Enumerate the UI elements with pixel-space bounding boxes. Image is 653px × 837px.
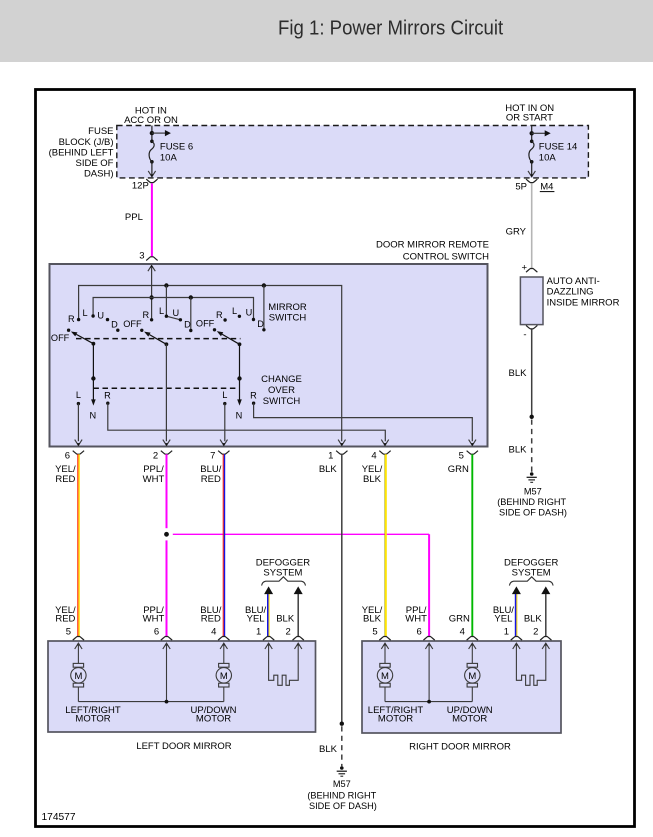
svg-text:ACC OR ON: ACC OR ON xyxy=(124,115,178,126)
svg-text:FUSE 14: FUSE 14 xyxy=(539,141,578,152)
node changeover B pivot xyxy=(237,376,241,380)
svg-text:FUSE: FUSE xyxy=(88,126,113,137)
left/right motor (right mirror) xyxy=(384,643,386,664)
wire arm3 to changeover xyxy=(239,344,241,378)
heater element left mirror xyxy=(269,643,299,685)
mirror switch section mid: contacts xyxy=(150,318,153,321)
svg-text:M: M xyxy=(468,671,476,682)
wire hot feed right xyxy=(531,126,533,137)
svg-text:M57: M57 xyxy=(524,486,542,496)
svg-text:WHT: WHT xyxy=(143,614,165,625)
svg-text:BLK: BLK xyxy=(509,368,528,379)
connector 5P M4 xyxy=(526,179,537,183)
right door mirror box xyxy=(362,641,561,733)
node fuse6 top xyxy=(150,131,154,135)
svg-text:SIDE OF: SIDE OF xyxy=(75,158,113,169)
wire BLK left defogger xyxy=(297,594,299,636)
wire BLK dashed to ground bottom xyxy=(341,726,343,766)
wire L2 drop xyxy=(165,286,167,317)
connector pin 4 right mirror xyxy=(467,637,478,641)
svg-text:1: 1 xyxy=(504,627,509,638)
svg-text:M57: M57 xyxy=(333,779,351,789)
title bar xyxy=(0,0,653,62)
svg-text:(BEHIND RIGHT: (BEHIND RIGHT xyxy=(307,790,376,800)
svg-text:MOTOR: MOTOR xyxy=(75,714,110,725)
svg-text:BLK: BLK xyxy=(363,614,382,625)
svg-text:BLK: BLK xyxy=(276,614,295,625)
svg-text:SIDE OF DASH): SIDE OF DASH) xyxy=(499,508,567,518)
svg-text:M: M xyxy=(381,671,389,682)
wire YEL/BLK xyxy=(384,454,386,636)
changeover contacts B xyxy=(223,402,226,405)
arrow feed continues right (fuse14) xyxy=(532,132,546,134)
up/down motor (left mirror) xyxy=(223,643,225,664)
wire D3 drop xyxy=(263,286,265,330)
node bus-pin6 left xyxy=(165,700,169,704)
node bus1-D3 xyxy=(262,283,266,287)
mirror switch section mid: wiper arm xyxy=(165,342,169,346)
svg-text:YEL: YEL xyxy=(494,614,512,625)
svg-text:6: 6 xyxy=(65,450,70,461)
svg-text:OR START: OR START xyxy=(506,113,553,124)
node PPL/WHT splice xyxy=(164,532,169,537)
connector pin 6 of switch xyxy=(75,440,82,446)
svg-text:INSIDE MIRROR: INSIDE MIRROR xyxy=(547,298,620,309)
svg-text:D: D xyxy=(184,320,191,330)
node feed-bus2 junction xyxy=(149,295,153,299)
wire GRN xyxy=(471,454,473,636)
svg-text:(BEHIND RIGHT: (BEHIND RIGHT xyxy=(497,497,566,507)
svg-text:174577: 174577 xyxy=(42,812,76,823)
svg-text:(BEHIND LEFT: (BEHIND LEFT xyxy=(49,147,114,158)
svg-text:L: L xyxy=(159,306,164,316)
node bus1-L2 xyxy=(164,283,168,287)
node bus2-D2 xyxy=(189,295,193,299)
svg-text:R: R xyxy=(142,310,149,320)
svg-text:U: U xyxy=(97,311,104,321)
fuse F14 xyxy=(531,136,533,141)
door mirror remote control switch box xyxy=(50,264,488,447)
connector pin 1 left mirror xyxy=(263,637,274,641)
svg-text:BLK: BLK xyxy=(319,464,338,475)
wire BLK right defogger xyxy=(545,594,547,636)
wire bus2 xyxy=(93,298,253,320)
wire arm1 to changeover xyxy=(92,344,94,379)
svg-text:SWITCH: SWITCH xyxy=(269,312,307,323)
fuse F6 xyxy=(151,136,153,141)
svg-text:U: U xyxy=(172,308,179,318)
connector pin 6 right mirror xyxy=(423,637,434,641)
svg-text:L: L xyxy=(232,306,237,316)
svg-text:5P: 5P xyxy=(515,182,527,193)
svg-text:L: L xyxy=(222,390,227,400)
wire fuse6 out xyxy=(151,167,153,177)
heater element right mirror xyxy=(516,643,545,685)
svg-text:BLK: BLK xyxy=(509,444,528,455)
ground M57 bottom xyxy=(340,766,344,770)
connector pin 4 left mirror xyxy=(218,637,229,641)
svg-text:GRN: GRN xyxy=(449,614,470,625)
svg-text:M: M xyxy=(220,671,228,682)
svg-text:R: R xyxy=(68,314,75,324)
connector 12P xyxy=(146,179,157,183)
svg-text:1: 1 xyxy=(256,627,261,638)
wire BLK dashed to ground xyxy=(531,420,533,473)
svg-text:5: 5 xyxy=(459,450,464,461)
fuse block (J/B) dashed box xyxy=(117,126,589,178)
svg-text:DAZZLING: DAZZLING xyxy=(547,286,594,297)
mirror switch mechanical link (dashed) xyxy=(76,338,241,340)
svg-text:U: U xyxy=(246,308,253,318)
connector pin 6 left mirror xyxy=(161,637,172,641)
wire PPL/WHT left xyxy=(166,454,168,528)
wire pin6 to bus left xyxy=(166,643,168,702)
svg-text:L: L xyxy=(82,308,87,318)
wire R-A to pin 4 xyxy=(108,403,386,441)
svg-text:OFF: OFF xyxy=(51,333,70,343)
svg-text:3: 3 xyxy=(139,251,144,262)
svg-text:GRY: GRY xyxy=(506,227,527,238)
connector pin 1 right mirror xyxy=(511,637,522,641)
svg-text:D: D xyxy=(111,320,118,330)
wire BLK mirror ground xyxy=(531,329,533,417)
svg-text:BLK: BLK xyxy=(524,614,543,625)
svg-text:BLK: BLK xyxy=(319,744,338,755)
changeover arm A (to N) xyxy=(92,379,94,401)
svg-text:7: 7 xyxy=(210,450,215,461)
svg-text:RED: RED xyxy=(201,614,221,625)
svg-text:Fig 1: Power Mirrors Circuit: Fig 1: Power Mirrors Circuit xyxy=(278,16,503,39)
changeover arm B (to N) xyxy=(239,379,241,401)
svg-text:DASH): DASH) xyxy=(84,169,114,180)
changeover mechanical link (dashed) xyxy=(93,387,239,389)
wire PPL xyxy=(151,183,153,257)
svg-text:WHT: WHT xyxy=(143,474,165,485)
svg-text:1: 1 xyxy=(328,450,333,461)
svg-text:D: D xyxy=(257,319,264,329)
svg-text:DEFOGGER: DEFOGGER xyxy=(256,557,311,568)
svg-text:SWITCH: SWITCH xyxy=(263,396,301,407)
node changeover A pivot xyxy=(91,376,95,380)
node BLK splice bottom xyxy=(340,722,344,726)
svg-text:6: 6 xyxy=(416,627,421,638)
connector pin 7 of switch xyxy=(220,440,227,446)
svg-text:FUSE 6: FUSE 6 xyxy=(160,141,193,152)
wire motor common bus left xyxy=(78,701,223,703)
mirror switch section left: contacts xyxy=(77,318,80,321)
changeover contacts A xyxy=(77,402,80,405)
svg-text:M4: M4 xyxy=(540,182,553,193)
connector pin 5 right mirror xyxy=(379,637,390,641)
svg-text:SIDE OF DASH): SIDE OF DASH) xyxy=(309,801,377,811)
svg-text:2: 2 xyxy=(286,627,291,638)
wire BLU/RED xyxy=(222,454,224,636)
svg-text:4: 4 xyxy=(460,627,465,638)
svg-text:R: R xyxy=(250,390,257,400)
svg-text:N: N xyxy=(89,411,96,421)
svg-text:RED: RED xyxy=(201,474,221,485)
node mirror BLK splice xyxy=(530,415,534,419)
wire BLU/YEL right defogger xyxy=(515,594,517,636)
svg-text:CONTROL SWITCH: CONTROL SWITCH xyxy=(403,252,489,263)
wire fuse14 out xyxy=(531,167,533,177)
wire L-A to pin 6 xyxy=(77,404,79,442)
svg-text:OFF: OFF xyxy=(123,319,142,329)
wire link L2-U2 xyxy=(166,316,180,320)
svg-text:5: 5 xyxy=(66,627,71,638)
svg-text:GRN: GRN xyxy=(448,464,469,475)
svg-text:MIRROR: MIRROR xyxy=(268,302,307,313)
mirror switch section left: wiper arm xyxy=(92,342,96,346)
wire R-B to pin 5 xyxy=(254,403,473,441)
up/down motor (right mirror) xyxy=(471,643,473,664)
svg-text:PPL: PPL xyxy=(125,212,143,223)
wire motor common bus right xyxy=(385,701,472,703)
svg-text:BLK: BLK xyxy=(363,474,382,485)
svg-text:WHT: WHT xyxy=(405,614,427,625)
connector pin 4 of switch xyxy=(381,440,388,446)
svg-text:BLOCK (J/B): BLOCK (J/B) xyxy=(59,137,114,148)
svg-text:MOTOR: MOTOR xyxy=(378,714,413,725)
connector pin 1 of switch xyxy=(338,440,345,446)
svg-text:MOTOR: MOTOR xyxy=(196,714,231,725)
svg-text:5: 5 xyxy=(372,627,377,638)
svg-text:OFF: OFF xyxy=(196,319,215,329)
svg-text:2: 2 xyxy=(153,450,158,461)
mirror switch section right: contacts xyxy=(223,318,226,321)
connector pin 2 right mirror xyxy=(540,637,551,641)
wire hot feed left xyxy=(151,126,153,137)
svg-text:CHANGE: CHANGE xyxy=(261,374,302,385)
wire GRY xyxy=(531,183,533,268)
connector pin 5 left mirror xyxy=(73,637,84,641)
wire L-B to pin 7 xyxy=(224,404,226,442)
wire pin3 entry feed xyxy=(148,265,155,271)
svg-text:LEFT DOOR MIRROR: LEFT DOOR MIRROR xyxy=(136,741,231,752)
wire pin6 to bus right xyxy=(428,643,430,702)
svg-text:DOOR MIRROR REMOTE: DOOR MIRROR REMOTE xyxy=(376,239,489,250)
svg-text:RIGHT DOOR MIRROR: RIGHT DOOR MIRROR xyxy=(409,741,511,752)
wire PPL/WHT branch to right mirror xyxy=(173,533,429,535)
wire BLU/YEL left defogger xyxy=(267,594,269,636)
node bus-pin6 right xyxy=(427,700,431,704)
wire D2 drop xyxy=(190,298,192,331)
arrow feed continues right xyxy=(152,132,166,134)
svg-text:OVER: OVER xyxy=(268,385,295,396)
svg-text:4: 4 xyxy=(211,627,216,638)
mirror switch section right: wiper arm xyxy=(238,342,242,346)
left door mirror box xyxy=(48,641,316,732)
svg-text:-: - xyxy=(523,330,526,341)
svg-text:MOTOR: MOTOR xyxy=(452,714,487,725)
connector pin 5 of switch xyxy=(469,440,476,446)
svg-text:10A: 10A xyxy=(160,153,178,164)
svg-text:N: N xyxy=(236,411,243,421)
svg-text:10A: 10A xyxy=(539,153,557,164)
ground M57 right xyxy=(530,472,534,476)
node fuse14 top xyxy=(530,131,534,135)
connector pin 2 left mirror xyxy=(293,637,304,641)
svg-text:M: M xyxy=(74,671,82,682)
svg-text:4: 4 xyxy=(371,450,376,461)
svg-text:R: R xyxy=(216,310,223,320)
svg-text:12P: 12P xyxy=(132,180,149,191)
svg-text:2: 2 xyxy=(533,627,538,638)
svg-text:YEL: YEL xyxy=(247,614,265,625)
svg-text:RED: RED xyxy=(55,614,75,625)
wire arm2 to pin 2 xyxy=(165,344,167,441)
connector pin 2 of switch xyxy=(163,440,170,446)
svg-text:RED: RED xyxy=(55,474,75,485)
svg-text:R: R xyxy=(104,390,111,400)
svg-text:6: 6 xyxy=(154,627,159,638)
wire BLK center xyxy=(341,454,343,724)
wire YEL/RED left xyxy=(77,454,79,636)
svg-text:L: L xyxy=(76,390,81,400)
left/right motor (left mirror) xyxy=(77,643,79,664)
wire bus1 xyxy=(79,286,342,442)
svg-text:DEFOGGER: DEFOGGER xyxy=(504,557,559,568)
